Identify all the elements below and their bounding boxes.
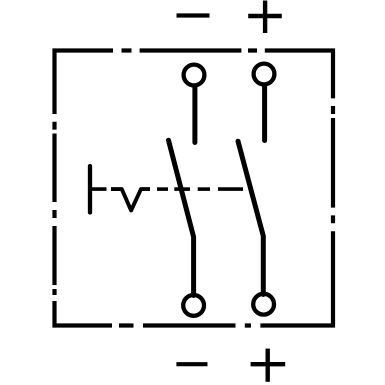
mechanical linkage dash 3 (198, 187, 210, 191)
terminal circle bottom-right (+) (253, 294, 274, 315)
enclosure outline right (dash-dot chain line) (331, 49, 335, 328)
enclosure outline bottom (dash-dot chain line) (53, 323, 336, 327)
terminal circle top-left (−) (184, 65, 205, 86)
mechanical linkage dash 1 (157, 187, 168, 191)
switch blade pole 2 (right, shown open) with wire to bottom-right terminal (238, 141, 263, 294)
wire: fixed contact stub from top-right terminal (262, 86, 267, 141)
mechanical linkage dash 2 (crosses pole 1 blade) (174, 187, 190, 191)
detent mechanism V-notch on linkage (111, 189, 150, 210)
terminal circle bottom-left (−) (183, 295, 204, 316)
minus polarity label (top) (177, 13, 210, 17)
switch blade pole 1 (left, shown open) with wire to bottom-left terminal (169, 140, 194, 295)
terminal circle top-right (+) (254, 64, 275, 85)
plus polarity label (top) (248, 1, 282, 34)
manual actuator bar (88, 166, 92, 213)
mechanical linkage dash 4 (ends at pole 2 blade) (218, 187, 243, 191)
plus polarity label (bottom) (251, 349, 286, 382)
actuator push rod (solid, from bar) (90, 187, 107, 191)
minus polarity label (bottom) (176, 362, 207, 366)
enclosure outline left (dash-dot chain line) (52, 49, 56, 328)
enclosure outline top (dash-dot chain line) (53, 48, 336, 52)
wire: fixed contact stub from top-left terminal (192, 87, 197, 143)
